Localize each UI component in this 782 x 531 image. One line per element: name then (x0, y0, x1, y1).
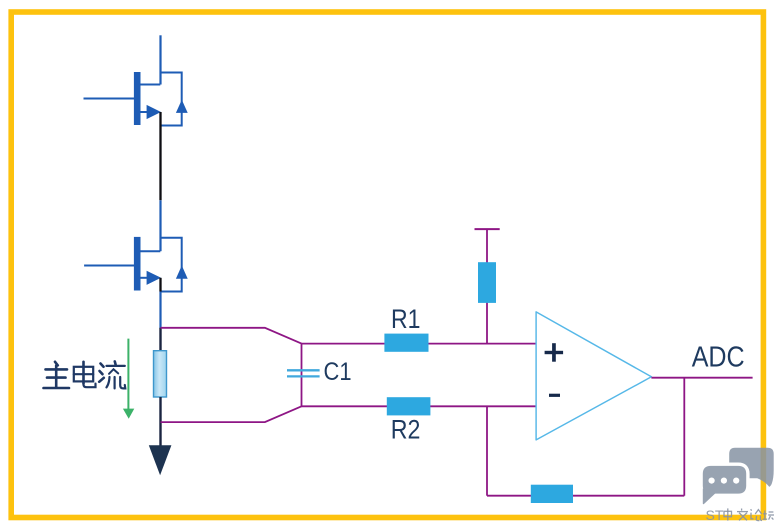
transistor Q2 (134, 237, 188, 292)
resistor R3 pull-up (478, 262, 496, 303)
label R1 (391, 304, 421, 334)
wire Q2 source to node A (159, 278, 161, 329)
ground arrow (149, 445, 172, 475)
watermark logo (703, 448, 774, 504)
label 主电流 (44, 361, 126, 388)
label ADC (692, 341, 745, 373)
svg-text:R1: R1 (391, 304, 421, 334)
svg-text:ADC: ADC (692, 341, 745, 373)
svg-text:ST: ST (706, 507, 724, 523)
wire feedback bottom (487, 495, 684, 497)
wire feedback left (486, 406, 488, 495)
power rail (475, 228, 500, 230)
resistor R4 feedback (531, 485, 573, 503)
wire gate Q1 (84, 98, 135, 100)
resistor R2 (387, 397, 431, 415)
label R2 (391, 415, 421, 445)
svg-text:C1: C1 (324, 358, 352, 386)
current direction arrow (123, 339, 134, 419)
wire gate Q2 (84, 265, 134, 267)
wire output (651, 377, 752, 379)
plus symbol (545, 343, 564, 362)
wire Q1 drain to top (159, 35, 161, 84)
transistor Q1 (134, 72, 188, 126)
wire shunt bottom to C1 bottom node (161, 406, 302, 422)
svg-text:R2: R2 (391, 415, 421, 445)
wire feedback right (683, 378, 685, 496)
wire plus input (302, 343, 537, 345)
wire pull-up (486, 229, 488, 344)
label C1 (324, 358, 352, 386)
wire shunt top to C1 top node (161, 328, 302, 344)
wire Q1 source to Q2 drain (159, 112, 161, 251)
wire node A to shunt (159, 328, 161, 351)
watermark text ST中文论坛 (706, 507, 775, 523)
shunt resistor (154, 351, 167, 397)
resistor R1 (384, 334, 428, 352)
wire minus input (302, 405, 537, 407)
capacitor C1 (287, 370, 320, 376)
minus symbol (549, 394, 560, 397)
wire C1 branch (301, 344, 303, 407)
wire shunt to ground (159, 397, 161, 447)
op-amp U1 (536, 312, 651, 440)
